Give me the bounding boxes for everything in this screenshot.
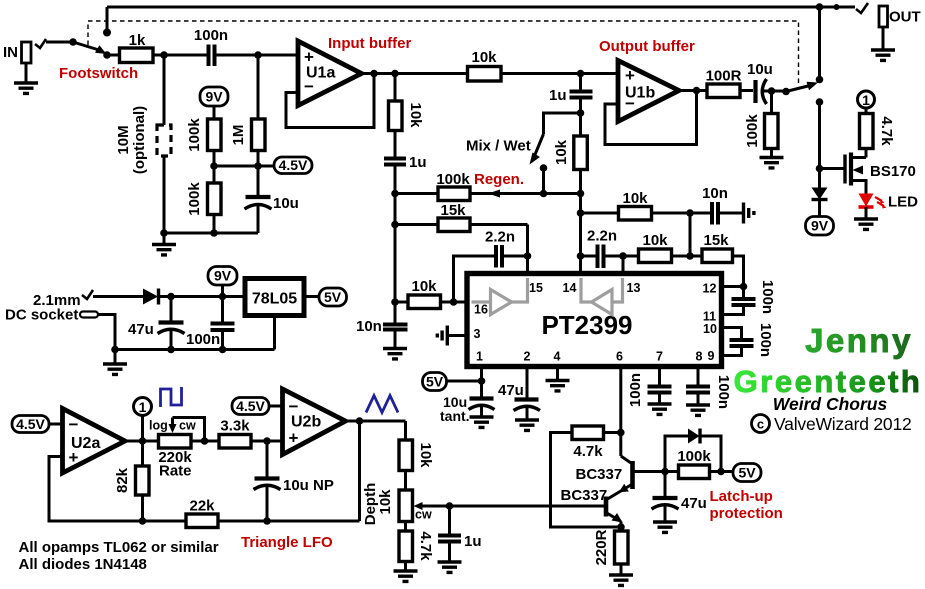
svg-text:Input buffer: Input buffer	[328, 35, 411, 52]
dashed footswitch link line	[88, 21, 799, 85]
regulator 78L05	[245, 279, 319, 350]
ground 10n	[383, 349, 407, 359]
svg-text:9: 9	[708, 349, 715, 363]
node 5V label (latch-up)	[733, 464, 761, 482]
svg-text:4.7k: 4.7k	[878, 116, 895, 146]
svg-text:−: −	[625, 94, 635, 113]
svg-text:10n: 10n	[356, 318, 382, 335]
wire LED branch	[816, 98, 845, 188]
svg-text:22k: 22k	[189, 498, 215, 515]
svg-text:Weird Chorus: Weird Chorus	[773, 394, 888, 414]
svg-text:10: 10	[703, 322, 717, 336]
svg-text:47u: 47u	[128, 321, 154, 338]
op-amp internal gray 1	[472, 278, 528, 315]
resistor 10k (to output buffer)	[468, 49, 619, 81]
pin number labels PT2399	[474, 281, 717, 364]
capacitor 100n (pins 12-11)	[722, 280, 777, 315]
resistor 4.7k (depth bottom)	[399, 531, 434, 570]
capacitor 10u output	[747, 61, 786, 104]
svg-text:IN: IN	[3, 44, 18, 61]
node 9V label (psu)	[208, 267, 237, 297]
svg-text:−: −	[304, 77, 314, 96]
svg-text:10k: 10k	[377, 489, 394, 515]
svg-text:1: 1	[476, 350, 483, 364]
svg-text:5V: 5V	[738, 465, 756, 481]
op-amp internal gray 2	[581, 278, 623, 315]
svg-text:1u: 1u	[549, 87, 567, 104]
svg-text:c: c	[757, 417, 764, 432]
svg-text:5V: 5V	[324, 289, 342, 305]
svg-text:Footswitch: Footswitch	[59, 65, 138, 82]
LED	[859, 194, 919, 219]
svg-text:1: 1	[862, 92, 870, 108]
svg-text:220R: 220R	[593, 529, 610, 565]
ground psu	[103, 364, 127, 374]
op-amp U2b	[283, 389, 346, 455]
svg-text:16: 16	[474, 303, 488, 317]
svg-text:LED: LED	[888, 194, 918, 211]
node 5V label (psu)	[319, 288, 347, 306]
switch Mix/Wet	[530, 113, 581, 194]
ground 100n pin7	[648, 404, 672, 414]
wire U2b output + feedback	[346, 417, 406, 521]
svg-text:(optional): (optional)	[131, 106, 148, 174]
wire latch-up node	[661, 436, 688, 475]
resistor 10k (row1 lowpass)	[581, 190, 711, 220]
svg-text:BC337: BC337	[561, 487, 608, 504]
ground right-facing (row1)	[744, 203, 754, 224]
svg-text:100n: 100n	[759, 280, 776, 314]
svg-text:log: log	[149, 419, 168, 433]
capacitor 47u latch-up	[652, 472, 707, 522]
potentiometer 10k Depth	[362, 483, 450, 531]
diode 1N4148 latch-up	[688, 429, 721, 472]
footswitch SPDT	[69, 38, 111, 59]
svg-text:Triangle LFO: Triangle LFO	[241, 534, 333, 551]
svg-text:15: 15	[529, 281, 543, 295]
transistor BS170	[845, 153, 916, 194]
wire U2a + to rail	[49, 457, 186, 522]
capacitor 100n psu	[186, 297, 235, 350]
wire IN to footswitch pole	[46, 41, 73, 44]
svg-text:10u: 10u	[273, 195, 299, 212]
wire top bypass rail	[107, 7, 855, 33]
svg-text:100n: 100n	[194, 27, 228, 44]
svg-text:protection: protection	[710, 505, 783, 522]
resistor 22k	[186, 498, 360, 528]
resistor 100R	[679, 68, 753, 98]
svg-text:10k: 10k	[642, 232, 668, 249]
potentiometer 220k Rate	[149, 418, 219, 480]
op-amp U1a	[298, 41, 362, 106]
svg-text:Regen.: Regen.	[474, 171, 524, 188]
resistor 100k regen	[436, 171, 470, 201]
switch output select	[782, 3, 839, 95]
jack IN	[3, 39, 46, 83]
svg-text:78L05: 78L05	[252, 291, 297, 308]
svg-text:100k: 100k	[436, 171, 470, 188]
capacitor 100n input	[194, 27, 228, 66]
resistor 100k latch-up	[665, 448, 733, 479]
svg-text:3.3k: 3.3k	[220, 418, 250, 435]
svg-text:2: 2	[524, 350, 531, 364]
socket DC 2.1mm	[5, 290, 143, 350]
svg-text:Rate: Rate	[159, 463, 192, 480]
node 5V pin1	[423, 367, 486, 398]
transistor BC337 Q1	[576, 456, 666, 499]
resistor 15k (feedback left)	[395, 202, 528, 232]
node circled 1 (LFO square)	[134, 398, 152, 442]
svg-text:−: −	[69, 415, 79, 434]
svg-text:+: +	[69, 448, 79, 467]
capacitor 1u (mix node)	[549, 74, 593, 137]
svg-text:ValveWizard 2012: ValveWizard 2012	[774, 414, 912, 434]
svg-text:4.7k: 4.7k	[417, 531, 434, 561]
svg-text:4.5V: 4.5V	[236, 398, 265, 414]
svg-text:tant.: tant.	[440, 408, 470, 424]
svg-text:10n: 10n	[702, 185, 728, 202]
svg-text:BS170: BS170	[870, 163, 916, 180]
ground LED	[854, 219, 878, 229]
svg-text:100k: 100k	[186, 118, 203, 152]
wire U1a feedback	[286, 70, 378, 128]
svg-text:5V: 5V	[426, 374, 444, 390]
wire pin12 node	[722, 283, 748, 298]
capacitor 100n (pins 10-9)	[722, 323, 775, 357]
capacitor 10n (left to ground)	[356, 318, 408, 347]
svg-text:cw: cw	[415, 508, 432, 522]
svg-text:All diodes 1N4148: All diodes 1N4148	[19, 556, 147, 573]
ground 10u tant	[470, 417, 494, 427]
wire pin6 drop	[617, 367, 625, 457]
svg-text:DC socket: DC socket	[5, 307, 78, 324]
capacitor 1u (wet feed)	[384, 154, 427, 323]
svg-text:10k: 10k	[411, 278, 437, 295]
node 4.5V label	[274, 157, 312, 174]
svg-text:47u: 47u	[681, 495, 707, 512]
svg-text:100R: 100R	[706, 68, 742, 85]
svg-text:9V: 9V	[214, 268, 232, 284]
svg-text:3: 3	[474, 327, 481, 341]
resistor 15k (row2)	[702, 232, 744, 287]
resistor 10k (mix node to pin14)	[553, 136, 587, 274]
ground pin4	[556, 367, 559, 380]
wire divider mid to 4.5V	[214, 162, 274, 170]
transistor BC337 Q2	[561, 487, 623, 523]
wire 1k to 100n	[153, 51, 208, 59]
wire psu ground rail	[111, 346, 274, 363]
capacitor 47u psu	[128, 297, 185, 350]
svg-text:15k: 15k	[703, 232, 729, 249]
node circled 1 (BS170)	[858, 91, 875, 114]
ground OUT jack	[871, 50, 895, 60]
svg-text:+: +	[625, 66, 635, 85]
svg-text:82k: 82k	[114, 467, 131, 493]
wire bias ground rail	[160, 229, 258, 243]
svg-text:9V: 9V	[811, 218, 829, 234]
svg-text:Latch-up: Latch-up	[710, 488, 773, 505]
svg-text:1u: 1u	[409, 154, 427, 171]
svg-text:100n: 100n	[627, 373, 644, 407]
resistor 10k (U1a output divider)	[389, 74, 425, 157]
capacitor 10u NP	[254, 441, 334, 521]
capacitor 10n (row1)	[702, 185, 742, 225]
resistor 220R	[593, 522, 628, 575]
diode 1N4148 (9V sense)	[812, 188, 828, 217]
svg-text:10u: 10u	[747, 61, 773, 78]
svg-text:4.7k: 4.7k	[573, 443, 603, 460]
svg-text:100k: 100k	[186, 182, 203, 216]
wire row1-row2 link	[689, 213, 692, 256]
wire U1a output	[362, 70, 468, 78]
svg-text:100n: 100n	[186, 331, 220, 348]
svg-text:12: 12	[703, 282, 717, 296]
svg-text:10k: 10k	[471, 49, 497, 66]
svg-text:10k: 10k	[407, 102, 424, 128]
resistor 10k (depth top)	[399, 421, 434, 490]
svg-text:9V: 9V	[205, 89, 223, 105]
resistor 4.7k BS170	[860, 114, 896, 158]
node 4.5V label (U2a)	[12, 416, 63, 433]
svg-text:1M: 1M	[230, 125, 247, 146]
wire U2a output	[125, 437, 159, 445]
jack OUT	[856, 3, 921, 49]
ground IN jack	[14, 83, 38, 93]
svg-text:100k: 100k	[744, 114, 761, 148]
ground 1u depth	[438, 562, 462, 572]
wire U2b + input	[251, 440, 283, 443]
svg-text:10M: 10M	[115, 125, 132, 154]
svg-text:Jenny: Jenny	[805, 322, 913, 359]
wire regen row	[395, 190, 584, 198]
wire depth wiper to BC337 base	[446, 502, 605, 510]
svg-text:PT2399: PT2399	[541, 310, 632, 340]
svg-text:4.5V: 4.5V	[16, 416, 45, 432]
ground 47u latch-up	[653, 522, 677, 532]
svg-text:4.5V: 4.5V	[279, 157, 308, 173]
node 4.5V label (U2b)	[232, 398, 283, 415]
svg-text:100n: 100n	[715, 375, 732, 409]
ground 100n pin8	[686, 405, 710, 415]
op-amp U1b	[618, 61, 679, 122]
svg-text:15k: 15k	[440, 202, 466, 219]
capacitor 2.2n (row2)	[577, 228, 639, 275]
resistor 1k	[107, 32, 153, 63]
svg-text:4: 4	[554, 350, 561, 364]
svg-text:10k: 10k	[553, 139, 570, 165]
resistor 100k output pulldown	[744, 91, 778, 156]
waveform square (blue)	[161, 387, 182, 407]
resistor 10k (row2)	[639, 232, 703, 263]
svg-text:All opamps TL062 or similar: All opamps TL062 or similar	[19, 539, 219, 556]
capacitor 10u bias	[245, 195, 299, 233]
capacitor 1u (depth)	[438, 506, 482, 561]
IC PT2399	[467, 274, 722, 367]
resistor 3.3k	[219, 418, 283, 449]
capacitor 10u tant	[440, 394, 495, 424]
ground 100k output	[760, 158, 784, 168]
svg-text:1u: 1u	[464, 533, 482, 550]
ground depth 4.7k	[394, 571, 418, 581]
svg-text:13: 13	[627, 281, 641, 295]
resistor 10M optional (dashed)	[115, 55, 171, 233]
svg-text:8: 8	[696, 350, 703, 364]
capacitor 47u pin2	[498, 367, 540, 420]
svg-text:1k: 1k	[129, 32, 146, 49]
resistor 1M	[230, 55, 265, 197]
node 9V label (LED branch)	[806, 217, 834, 236]
svg-text:14: 14	[563, 281, 577, 295]
waveform triangle (blue)	[366, 396, 398, 413]
node bypass contact top-left	[103, 29, 111, 37]
resistor 82k	[114, 441, 149, 525]
logo copyright line	[752, 414, 912, 434]
node 9V supply label (divider)	[200, 87, 228, 119]
resistor 100k lower divider	[186, 182, 221, 233]
wire U1b feedback	[605, 87, 700, 145]
svg-text:10k: 10k	[417, 442, 434, 468]
svg-text:1: 1	[139, 399, 147, 415]
svg-text:47u: 47u	[498, 382, 524, 399]
svg-text:2.2n: 2.2n	[587, 228, 617, 245]
svg-text:7: 7	[656, 350, 663, 364]
capacitor 100n pin7	[627, 367, 672, 408]
diode 1N4148 (polarity)	[143, 289, 245, 305]
svg-text:+: +	[289, 429, 299, 448]
note text opamps/diodes	[19, 539, 219, 573]
ground bias rail	[152, 245, 176, 255]
svg-text:BC337: BC337	[576, 466, 623, 483]
svg-text:100n: 100n	[757, 323, 774, 357]
svg-text:10k: 10k	[622, 190, 648, 207]
resistor 4.7k (BC337 collector)	[551, 426, 622, 527]
svg-text:cw: cw	[179, 419, 196, 433]
ground 220R	[609, 575, 633, 585]
capacitor 100n pin8	[686, 367, 732, 410]
ground 47u pin2	[515, 420, 539, 430]
svg-text:Output buffer: Output buffer	[599, 38, 695, 55]
resistor 10k (pin16)	[395, 278, 467, 309]
svg-text:10u NP: 10u NP	[283, 477, 334, 494]
svg-text:Mix / Wet: Mix / Wet	[466, 138, 531, 155]
svg-text:100k: 100k	[677, 448, 711, 465]
capacitor 2.2n (left)	[450, 229, 528, 306]
wire pin15 drop	[524, 225, 532, 275]
svg-text:2.2n: 2.2n	[485, 229, 515, 246]
svg-text:OUT: OUT	[889, 9, 921, 26]
svg-text:6: 6	[616, 350, 623, 364]
label Latch-up protection	[710, 488, 783, 522]
ground pin3 left-facing	[437, 326, 467, 346]
wire 100n to U1a	[215, 51, 298, 59]
op-amp U2a	[63, 409, 126, 474]
resistor 100k upper divider	[186, 118, 221, 183]
